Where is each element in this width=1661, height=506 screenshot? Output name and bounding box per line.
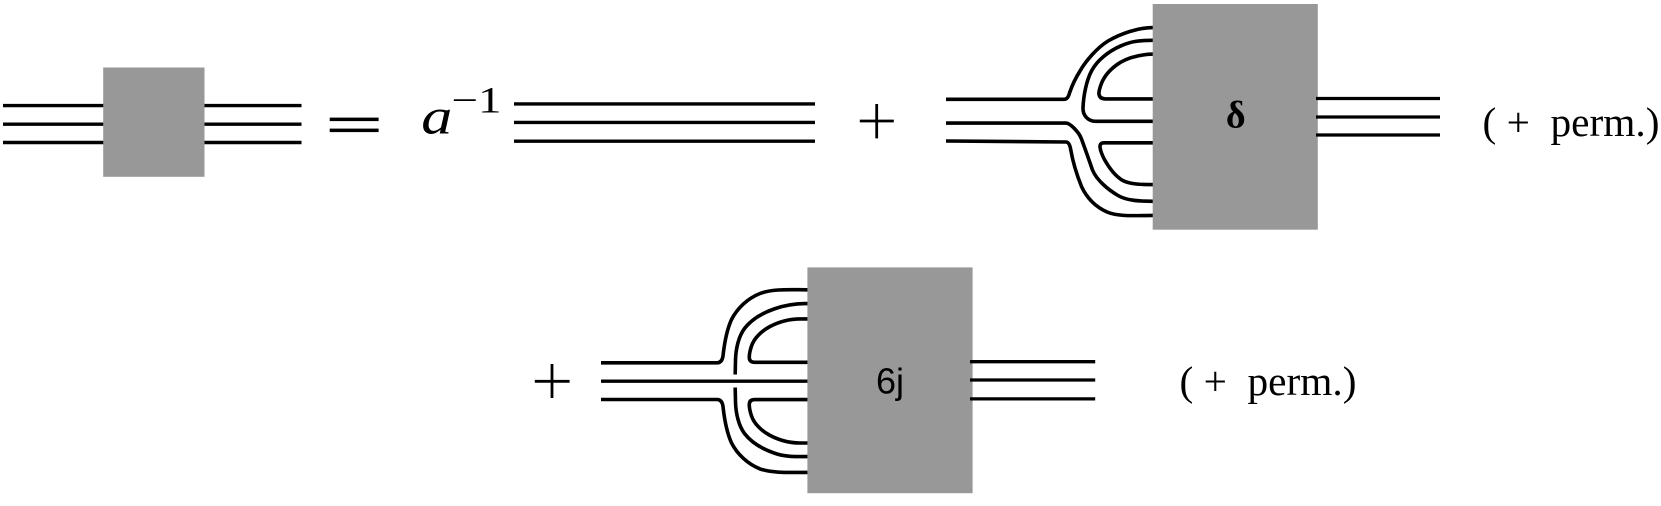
wire: bare propagator top line [514, 102, 815, 105]
wire: 6j diagram strand 3 (inner top C from box y319 to box y362) [749, 319, 812, 362]
wire: 6j diagram strand 2b (C-strand lower part, from crossing gap down to box y455) [735, 388, 812, 457]
wire: left diagram top incoming line [3, 104, 106, 107]
wire: delta diagram strand 5 (inner bottom C from box y143 to box y185) [1100, 143, 1160, 185]
wire: bare propagator bottom line [514, 139, 815, 142]
wire: delta diagram middle outgoing line [1316, 115, 1440, 118]
svg-text:δ: δ [1226, 95, 1246, 137]
wire: left diagram middle outgoing line [202, 122, 302, 125]
vertex box: 6j insertion [807, 267, 972, 493]
plus sign (row 1) [860, 104, 894, 138]
wire: 6j diagram middle outgoing line [970, 378, 1095, 381]
wire: 6j diagram strand 5 (inner bottom C from box y399 to box y443) [749, 400, 812, 443]
wire: delta diagram strand 1 (top incoming, arcs to top of box) [946, 28, 1160, 100]
plus sign (row 2) [535, 364, 570, 398]
wire: left diagram top outgoing line [202, 104, 302, 107]
wire: delta diagram strand 4 (middle incoming, bends down to box y201) [946, 123, 1160, 201]
wire: delta diagram strand 6 (bottom incoming, arcs to bottom of box) [946, 141, 1160, 216]
vertex box: full propagator (left side of equation) [103, 68, 204, 177]
wire: left diagram bottom outgoing line [202, 141, 302, 144]
wire: 6j diagram strand 6 (bottom incoming, arcs to bottom of box) [601, 400, 812, 473]
wire: left diagram bottom incoming line [3, 141, 106, 144]
vertex box: delta insertion [1153, 4, 1318, 230]
equals sign [330, 118, 379, 122]
wire: delta diagram strand 3 (inner top C from box y54 to box y99) [1099, 54, 1160, 99]
wire: delta diagram top outgoing line [1316, 97, 1440, 100]
wire: bare propagator middle line [514, 121, 815, 124]
svg-text:( + perm.): ( + perm.) [1180, 358, 1357, 405]
wire: 6j diagram strand 4 (middle incoming, straight through) [601, 380, 812, 383]
svg-text:a: a [421, 89, 452, 145]
wire: 6j diagram bottom outgoing line [970, 397, 1095, 400]
wire: delta diagram bottom outgoing line [1316, 133, 1440, 136]
wire: delta diagram strand 2 (C-strand from box y40 sweeping down to middle stub) [1083, 40, 1160, 121]
wire: left diagram middle incoming line [3, 122, 106, 125]
svg-text:( + perm.): ( + perm.) [1483, 99, 1660, 146]
wire: 6j diagram strand 2a (C-strand upper part, from box y303 down to crossing gap) [735, 304, 812, 375]
wire: 6j diagram top outgoing line [970, 360, 1095, 363]
wire: 6j diagram strand 1 (top incoming, arcs to top of box) [601, 290, 812, 363]
svg-text:−1: −1 [452, 81, 502, 122]
svg-text:6j: 6j [876, 361, 904, 402]
